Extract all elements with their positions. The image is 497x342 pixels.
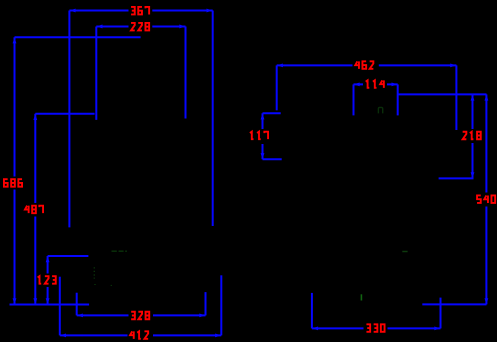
arrow 117 top <box>261 113 265 119</box>
wire: ext line bottom of 218 (y=178.4) <box>439 177 474 179</box>
wire: 117 bottom ext line <box>263 158 282 160</box>
arrow 540 top <box>485 94 489 100</box>
arrow 328 right <box>199 314 205 318</box>
node: hidden dot (111.3,285.4) <box>110 285 112 286</box>
arrow 462 left <box>277 63 283 67</box>
text 462 <box>355 61 373 69</box>
wire: 228 left extension <box>95 26 97 119</box>
dimension 218 line <box>472 94 474 178</box>
text 540 <box>477 195 495 203</box>
wire: ext line top of 686 (y=37) <box>15 36 141 38</box>
arrow 367 right <box>207 9 213 13</box>
arrow 123 top <box>46 256 50 262</box>
arrow 367 left <box>69 9 75 13</box>
arrow 328 left <box>77 314 83 318</box>
dimension 330 line <box>312 327 441 329</box>
wire: 330 left extension <box>311 293 313 329</box>
wire: 228 right extension <box>185 26 187 118</box>
dimension 328 line <box>77 314 206 316</box>
node: hidden dot (95,284.5) <box>94 284 96 285</box>
arrow 228 left <box>96 25 102 29</box>
wire: 330 right extension <box>440 298 442 329</box>
arrow 123 bottom <box>46 298 50 304</box>
wire: 412 right extension <box>220 275 222 335</box>
wire: hidden dash (right object, y=251.5) <box>402 251 407 253</box>
dimension 367 line <box>69 10 212 12</box>
text 412 <box>130 331 148 339</box>
text 487 <box>25 206 43 214</box>
wire: hidden dash line y=251 (left object) <box>112 250 127 252</box>
wire: ext line top of 487 (y=114) <box>35 113 94 115</box>
arrow 487 top <box>33 114 37 120</box>
wire: 114 left extension <box>353 84 355 115</box>
dimension 412 line <box>60 334 222 336</box>
wire: hidden dotted vertical x=94 (left object) <box>93 267 95 278</box>
arrow 218 bottom <box>471 172 475 178</box>
arrow 228 right <box>179 25 185 29</box>
wire: bottom ext line right drawing (y=304.4) <box>422 303 486 305</box>
dimension 487 line <box>34 114 36 305</box>
dimension 686 line <box>14 37 16 304</box>
dimension 117 line <box>262 113 264 159</box>
arrow 487 bottom <box>33 298 37 304</box>
arrow 218 top <box>471 94 475 100</box>
arrow 117 bottom <box>261 153 265 159</box>
arrow 540 bottom <box>485 298 489 304</box>
text 330 <box>366 324 384 332</box>
text 328 <box>131 312 149 320</box>
hidden small n-shape (right object) <box>378 107 382 113</box>
arrow 412 left <box>60 333 66 337</box>
wire: top ext line right drawing (y=94.4) <box>398 93 487 95</box>
arrow 330 right <box>434 327 440 331</box>
wire: 117 top ext line <box>263 112 281 114</box>
text 123 <box>38 276 56 284</box>
wire: bottom ext line left drawing (y=304.5) <box>10 303 90 305</box>
arrow 686 bottom <box>13 298 17 304</box>
wire: green dash (right object bottom) <box>360 294 362 300</box>
wire: 462 left extension <box>276 65 278 110</box>
text 686 <box>4 179 22 187</box>
arrow 330 left <box>312 327 318 331</box>
dimension 114 line <box>354 83 398 85</box>
dimension 123 line <box>47 256 49 304</box>
arrow 462 right <box>450 63 456 67</box>
wire: 328 right extension <box>205 292 207 315</box>
arrow 686 top <box>13 37 17 43</box>
arrow 114 left <box>354 83 360 87</box>
wire: 367 left extension <box>68 11 70 228</box>
wire: 114 right extension <box>397 84 399 115</box>
dimension 540 line <box>485 94 487 304</box>
dimension 462 line <box>277 64 457 66</box>
dimension 228 line <box>96 25 185 27</box>
text 228 <box>131 23 149 31</box>
text 114 <box>366 80 384 88</box>
arrow 412 right <box>215 333 221 337</box>
wire: 367 right extension <box>212 11 214 227</box>
wire: 462 right extension <box>455 65 457 130</box>
text 367 <box>131 7 149 15</box>
text 117 <box>250 132 268 140</box>
wire: 412 left extension <box>59 277 61 336</box>
arrow 114 right <box>392 83 398 87</box>
wire: 328 left extension <box>76 293 78 316</box>
wire: ext line top of 123 (y=256) <box>48 255 89 257</box>
text 218 <box>463 132 481 140</box>
